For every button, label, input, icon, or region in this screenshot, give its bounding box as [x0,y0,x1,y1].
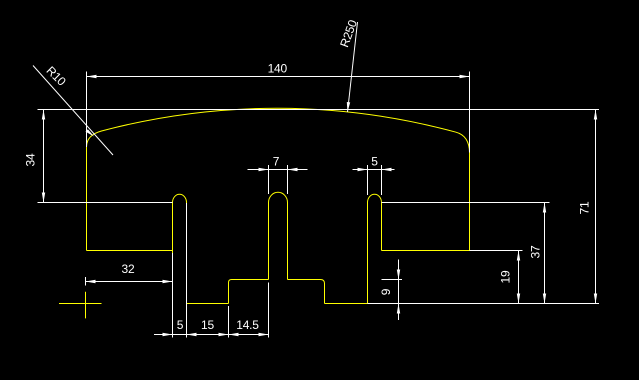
middle prong cap [269,192,288,202]
arrow 32 left [86,280,96,283]
dim 37 top extension [382,202,550,204]
svg-text:34: 34 [24,153,38,166]
arrow 7 left (outside) [259,168,269,171]
R250 leader [348,22,358,112]
arrow 140 left [87,75,97,78]
dim 140 left extension [86,72,88,148]
arrow 19 top [517,251,520,261]
part top profile: left edge, R10 corner, R250 arc, R10 corner, right edge [87,108,470,250]
left rib left edge [172,203,174,304]
arrow bottom dims at 187 pointing left [187,333,197,336]
dim 140 line [87,76,470,78]
arrow 32 right [163,280,173,283]
svg-text:5: 5 [177,318,184,332]
floor right of middle prong with step down at x=324.5 [288,280,325,304]
shared top extension line y=109 [38,109,600,111]
middle prong right edge [287,203,289,280]
bottom dims line y=334.5 [154,334,269,336]
svg-text:19: 19 [499,270,513,283]
bottom edge of right portion [382,250,470,252]
arrow 140 right [460,75,470,78]
bottom extension x=228 [228,306,230,338]
arrow bottom dims at 228 pointing left [229,333,239,336]
svg-text:14.5: 14.5 [236,318,259,332]
arrow 5 top right (outside) [382,168,392,171]
arrow bottom dims at 228 pointing right [219,333,229,336]
bottom extension x=187 (long, along rib right edge) [186,203,188,338]
step up at x=228.5 with fillet [229,280,269,304]
dim 7 line [248,169,308,171]
arrow 71 bottom [594,294,597,304]
center cross mark at bottom-left [59,292,102,319]
svg-text:37: 37 [529,245,543,258]
left rib cap [173,194,187,202]
arrow 37 top [543,203,546,213]
arrowheads [42,75,597,336]
dim 7 extension lines [269,165,288,194]
arrow 5 top left (outside) [358,168,368,171]
arrow R10 tip [86,129,95,136]
right rib cap [368,194,382,202]
arrow R250 tip [347,102,350,112]
shoulder extension line left (34 bottom) [38,202,173,204]
R10 leader [33,66,113,156]
bottom edge between step and right rib [325,303,368,305]
bottom edge between left rib and step [187,303,229,305]
arrow 9 top (outside, pointing down) [397,270,400,280]
arrow 7 right (outside) [288,168,298,171]
dim 32 right extension along rib edge [172,253,174,338]
dim 9 line [398,260,400,321]
arrow 71 top [594,110,597,120]
dim 71 line [595,110,597,304]
arrow 19 bottom [517,294,520,304]
dim 32 left extension stub [85,277,87,286]
svg-text:5: 5 [371,155,378,169]
dim 19 top extension [470,250,523,252]
arrow 37 bottom [543,294,546,304]
arrow 34 top [42,110,45,120]
dim 5 top extension lines [368,165,382,195]
arrow 9 bottom (outside, pointing up) [397,304,400,314]
svg-text:32: 32 [122,262,135,276]
middle prong left edge [268,203,270,280]
dim 140 right extension [469,72,471,153]
svg-text:9: 9 [379,288,393,295]
svg-text:140: 140 [268,62,288,76]
bottom edge of left portion [87,250,173,252]
right rib left edge [367,203,369,304]
dim 34 line [43,110,45,203]
svg-text:15: 15 [201,318,214,332]
dim 32 line [86,281,173,283]
arrow bottom dims at 268 pointing right [259,333,269,336]
dim 9 top extension y=280 [382,279,403,281]
arrow 34 bottom [42,193,45,203]
dim 5 top line [353,169,395,171]
svg-text:71: 71 [578,201,592,214]
shared bottom extension line y=303.5 [368,303,600,305]
svg-text:7: 7 [273,155,280,169]
left rib right edge stub [186,203,188,206]
dimensions [33,22,599,338]
dim 37 line [544,203,546,304]
arrow bottom dims at 173 pointing right [163,333,173,336]
part outline [59,108,470,318]
bottom extension x=268 [268,283,270,338]
dim 19 line [518,251,520,304]
right rib right edge [381,203,383,251]
